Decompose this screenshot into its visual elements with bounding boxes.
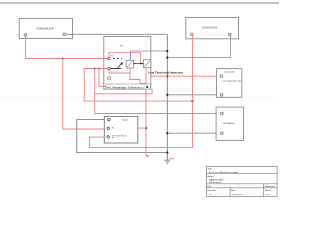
arrowhead left on link — [134, 63, 136, 65]
svg-text:NANOLE NAVY: NANOLE NAVY — [209, 178, 225, 181]
wire red M1 pin1 down to bus1 — [24, 36, 26, 58]
relay pin 1 — [108, 57, 110, 59]
fan pin 1 — [108, 118, 110, 120]
junction node on bus y51 — [166, 50, 168, 52]
wire red relay out to comparator pin1 — [151, 75, 220, 77]
svg-text:xxxxpxxxB: xxxxpxxxB — [224, 72, 235, 74]
svg-text:04.01.2023: 04.01.2023 — [232, 194, 244, 196]
relay module K1 outline — [104, 37, 151, 90]
junction node on bus y152.6 — [166, 152, 168, 154]
svg-text:Author: Author — [208, 175, 215, 178]
junction node on bus y133.2 — [166, 132, 168, 134]
junction node on bus y57.5 — [166, 56, 168, 58]
junction node bus2 x94.3 — [94, 68, 96, 70]
wire red fan block internal out — [130, 127, 146, 129]
wire red square1 bottom staircase — [130, 68, 146, 83]
wire red square2 drop long — [145, 68, 147, 156]
junction node on bus y75.9 — [166, 75, 168, 77]
block B1 battery unit top-right — [186, 17, 239, 38]
svg-text:Date: Date — [231, 189, 236, 192]
junction node red at 192.5,100.9 — [191, 100, 193, 102]
wire node to comparator pin2 — [167, 94, 220, 96]
wire red drop x99 staircase — [99, 69, 146, 87]
top border line — [0, 2, 279, 4]
output block outline — [216, 107, 244, 140]
arrowhead right on link — [141, 63, 143, 65]
fan pin 2 — [107, 127, 109, 129]
terminal pin 2 of M1 — [63, 33, 66, 36]
junction node bus1 x62.8 — [62, 58, 64, 60]
svg-text:Revision: Revision — [208, 190, 217, 192]
title block — [207, 166, 278, 196]
converter square U1a — [126, 60, 133, 68]
contact fixed dots — [113, 58, 115, 60]
earth clip tail — [108, 77, 111, 79]
wire main vertical bus to ground — [166, 34, 168, 152]
wire from M1 pin2 to node top — [66, 33, 168, 35]
contact blade — [117, 62, 122, 68]
svg-text:XXXXXXXLXXX: XXXXXXXLXXX — [37, 26, 54, 30]
wire blue from square U1a top — [129, 51, 131, 60]
wire red B1 pin1 down — [192, 36, 194, 147]
svg-text:dm Kühlerlüfterm: dm Kühlerlüfterm — [112, 134, 128, 137]
svg-text:xxxx-x.CO: xxxx-x.CO — [110, 71, 119, 73]
junction node bus2 x99 — [98, 68, 100, 70]
terminal pin 1 of B1 — [191, 33, 194, 36]
output pin 1 — [221, 112, 224, 115]
comparator pin 1 — [220, 75, 223, 78]
wire blue riser to node — [130, 50, 167, 52]
svg-text:1 of 1: 1 of 1 — [265, 194, 271, 196]
svg-text:A=1 Klimaanlage, Teilstrecke x: A=1 Klimaanlage, Teilstrecke x.x — [107, 86, 146, 89]
junction node red at 146.0,128.1 — [145, 127, 147, 129]
wire red riser from relay pin1 — [109, 53, 141, 64]
svg-text:Low Threshold detection: Low Threshold detection — [148, 72, 184, 75]
wire node to B1 pin2 — [167, 36, 230, 58]
comparator block outline — [217, 69, 242, 98]
plate end marker — [146, 86, 148, 88]
svg-text:Eco S. char (Wheelchair) fan c: Eco S. char (Wheelchair) fan cooling — [209, 171, 239, 174]
terminal pin 1 of M1 — [24, 34, 27, 37]
fold mark line — [0, 96, 277, 98]
comparator pin 2 — [220, 94, 223, 97]
wire red fan pin3 stub — [90, 137, 107, 148]
terminal pin 2 of B1 — [229, 33, 232, 36]
svg-text:CN Events b: CN Events b — [209, 181, 222, 184]
converter square U1b — [143, 60, 150, 68]
relay pin 2 — [108, 67, 110, 69]
contact lead from pin2 — [110, 68, 121, 70]
fan block E1 outline — [104, 116, 138, 143]
earth clip glyph in relay — [108, 77, 111, 80]
contact blue mark — [121, 58, 122, 59]
svg-text:Lxxx dynxxxxx B1: Lxxx dynxxxxx B1 — [222, 81, 242, 83]
svg-text:Sheet: Sheet — [265, 189, 271, 192]
svg-text:XxXXXxxXX: XxXXXxxXX — [202, 26, 218, 30]
relay label plate — [106, 84, 151, 89]
wire red branch y93.8 with up stub — [95, 89, 152, 94]
svg-text:FB: FB — [120, 46, 123, 48]
wire red drop x94.7 to output pin1 — [95, 69, 221, 114]
page background — [0, 0, 279, 198]
wire red long bottom line — [90, 147, 193, 149]
fan pin 3 — [107, 136, 109, 138]
block M1 motor unit top-left — [19, 18, 72, 38]
svg-text:xXXTRAGxx: xXXTRAGxx — [222, 122, 235, 125]
junction node between squares — [140, 63, 142, 65]
arrow end of red drop — [147, 155, 149, 157]
wire red bus1 to relay pin1 — [25, 58, 107, 60]
svg-text:Document: Document — [265, 185, 275, 188]
wire fan block pin1 left drop to ground bus — [77, 120, 168, 153]
wire red relay pin2 staircase — [109, 70, 130, 73]
svg-text:Ba-B+: Ba-B+ — [123, 119, 130, 121]
title block texts — [208, 168, 276, 196]
junction node on bus y95.5 — [166, 94, 168, 96]
ground symbol — [164, 153, 170, 164]
wire node to output block pin2 — [167, 132, 220, 134]
link between squares — [134, 63, 144, 65]
output pin 2 — [221, 132, 224, 135]
wire red bus2 to relay pin2 — [84, 68, 107, 70]
wire red bus2 left drop to mid line — [84, 69, 192, 102]
wire red drop to fan block pin2 — [63, 59, 107, 130]
net label 24V near ground — [170, 158, 175, 159]
contact arrow mark — [121, 62, 123, 65]
